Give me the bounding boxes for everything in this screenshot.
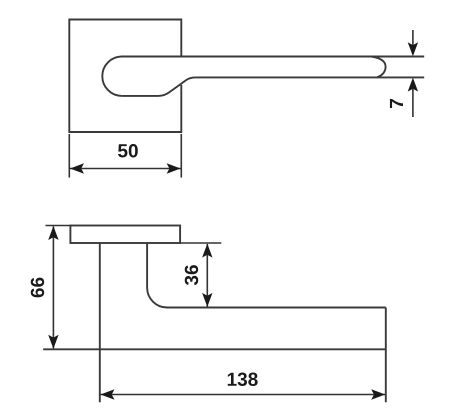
dimension 7 label (rotated) [390,99,403,108]
dimension 138: dimension line with two arrowheads [101,394,386,396]
dimension 50 label [118,144,138,157]
dimension 50: right extension line [180,134,182,178]
handle neck right edge, fillet and lever top edge (side view) [147,243,386,308]
dimension 7: lower arrow pointing up [412,81,414,118]
dimension 138 label [228,373,258,386]
dimension 7: upper arrow pointing down [412,30,414,54]
lever right rounded end cap (top view) [371,57,386,78]
dimension 50: left extension line [68,134,70,178]
dimension 36: dimension line with two arrowheads [206,244,208,307]
square rose plate (top view), right edge interrupted by lever [69,20,181,133]
rose plate side view (bottom drawing) [70,226,180,244]
rose top extension line to left (for 66) [46,225,71,227]
handle neck left edge + extension down to 138 dimension (side view) [99,243,101,402]
lever handle bottom edge with taper diagonal and extension line (top view) [122,77,424,96]
dimension 50: left arrowhead [70,163,84,173]
dimension 50: dimension line [70,168,181,170]
lever handle outline (top view): top edge with extension line to right [122,56,425,58]
lever right end edge + extension down to 138 dimension (side view) [385,308,387,403]
dimension 66: dimension line with two arrowheads [52,227,54,349]
lever handle grip left rounded end (top view) [102,57,122,96]
dimension 36 label (rotated) [185,265,198,285]
dimension 66 label (rotated) [31,278,44,298]
dimension 50: right arrowhead [167,163,181,173]
rose bottom extension line to right (for 36) [180,242,221,244]
lever bottom edge with left extension (side view) [43,348,386,350]
